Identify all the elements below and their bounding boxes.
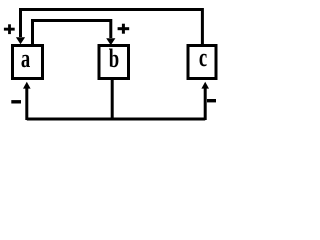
wire from b bottom to bottom bus	[111, 80, 114, 120]
arrowhead into b top	[106, 38, 115, 45]
wire bus up to c bottom	[204, 88, 207, 120]
wire bus up to a bottom	[25, 88, 28, 120]
arrowhead into c bottom	[201, 82, 209, 89]
minus sign at c bottom input	[207, 99, 216, 102]
block b	[99, 46, 129, 79]
plus sign at a input	[4, 28, 15, 31]
arrowhead into a bottom	[23, 82, 31, 89]
svg-text:b: b	[109, 44, 119, 73]
wire feedback from c top to a top	[21, 10, 203, 45]
block a	[13, 46, 43, 79]
plus sign at b input	[118, 27, 130, 30]
block c	[188, 46, 216, 79]
minus sign at a bottom input	[11, 100, 21, 103]
arrowhead into a top	[16, 37, 25, 44]
svg-text:c: c	[199, 43, 207, 72]
bottom bus wire	[27, 118, 205, 121]
wire from a top to b top	[33, 21, 111, 45]
svg-text:a: a	[21, 44, 30, 73]
